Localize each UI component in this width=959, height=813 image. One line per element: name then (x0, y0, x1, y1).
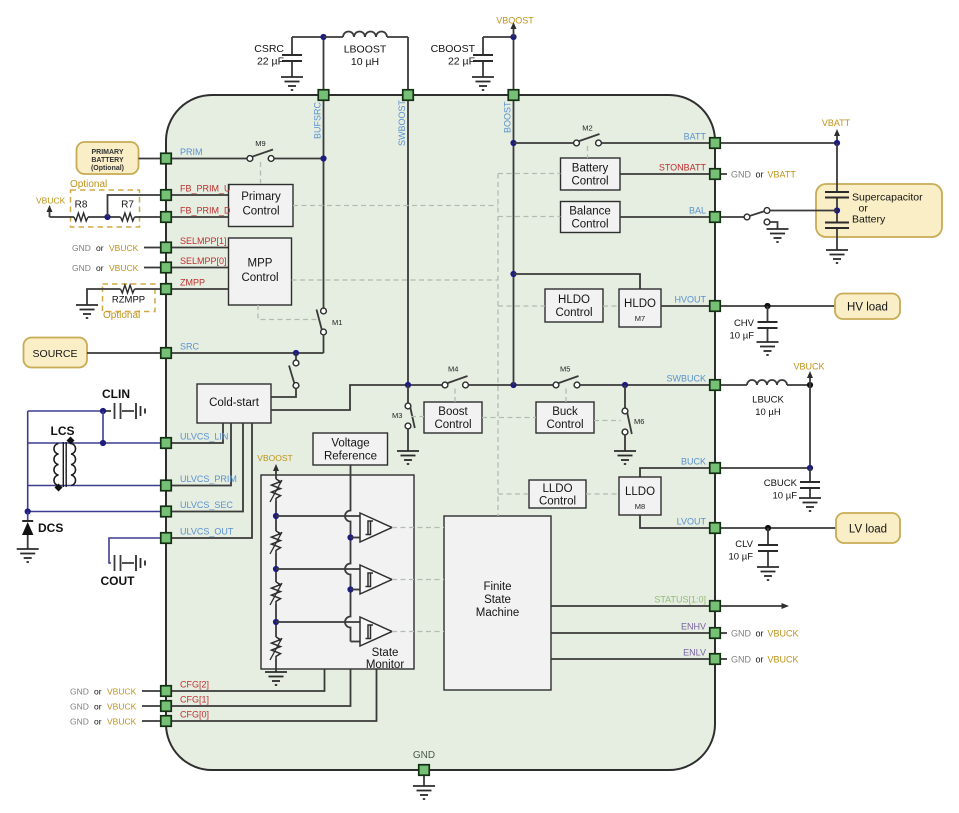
node boost rail BOOST (510, 382, 516, 388)
transistor LLDO M8 (619, 477, 661, 515)
wire BUFSRC vertical (323, 101, 325, 308)
svg-text:VBOOST: VBOOST (496, 16, 534, 26)
wire ladder seg4 (275, 659, 277, 672)
pin SELMPP0 (161, 256, 227, 273)
LV load box (836, 513, 900, 543)
node boost rail SWBOOST (405, 382, 411, 388)
wire ULVCS_LIN inside (172, 423, 223, 443)
wire ULVCS_SEC row (28, 511, 160, 513)
pin CFG2 (161, 680, 209, 697)
pin SWBUCK (666, 374, 720, 391)
wire switch throw to ground (770, 222, 777, 229)
pin ULVCS_SEC (161, 500, 234, 517)
wire CLIN node down (102, 411, 104, 443)
svg-text:GND: GND (731, 655, 752, 665)
label GND or VBATT at STONBATT (721, 170, 796, 180)
node tap1 (273, 513, 279, 519)
svg-text:FB_PRIM_D: FB_PRIM_D (180, 206, 231, 216)
dashed gate M5 (565, 389, 567, 403)
svg-text:RZMPP: RZMPP (112, 295, 145, 306)
capacitor CBUCK (764, 468, 820, 502)
svg-text:SWBUCK: SWBUCK (666, 374, 706, 384)
wire ULVCS_PRIM row (28, 485, 160, 487)
wire ladder seg2 (275, 553, 277, 582)
svg-text:VBUCK: VBUCK (768, 655, 799, 665)
ground at CHV (757, 342, 779, 355)
wire BATT to supercap (721, 142, 837, 144)
svg-text:STATUS[1:0]: STATUS[1:0] (654, 595, 706, 605)
capacitor CLV (729, 528, 778, 567)
block Voltage Reference (313, 433, 388, 465)
wire left vertical (27, 411, 29, 512)
svg-text:R7: R7 (121, 200, 134, 211)
svg-text:HV load: HV load (847, 302, 888, 314)
pin PRIM (161, 147, 203, 164)
svg-text:Primary: Primary (241, 191, 281, 203)
svg-text:SELMPP[1]: SELMPP[1] (180, 236, 227, 246)
wire ULVCS_OUT inside (172, 423, 252, 538)
resistor RZMPP (87, 284, 160, 312)
label GND or VBUCK at SELMPP1 (72, 243, 160, 253)
node at CHV (764, 303, 770, 309)
dashed MPP to M1 (258, 305, 318, 320)
svg-text:VBUCK: VBUCK (109, 243, 139, 253)
label GND or VBUCK at ENLV (721, 655, 799, 665)
wire FB_PRIM_D inside (172, 216, 229, 218)
svg-text:10 µF: 10 µF (729, 552, 754, 563)
wire buck rail to SWBUCK (580, 384, 709, 386)
pin BAL (689, 206, 720, 223)
pin SRC (161, 342, 200, 359)
svg-text:COUT: COUT (101, 574, 136, 588)
wire ladder seg1 (275, 501, 277, 531)
node BOOST-HLDO (510, 271, 516, 277)
net VBOOST ladder (257, 453, 292, 479)
svg-text:SELMPP[0]: SELMPP[0] (180, 256, 227, 266)
svg-text:or: or (94, 717, 102, 727)
wire FSM to STATUS (551, 605, 709, 607)
svg-text:10 µH: 10 µH (755, 407, 781, 418)
block Buck Control (536, 402, 594, 433)
wire ref to comp3 (351, 641, 361, 643)
wire Battery Control to STONBATT (620, 173, 709, 175)
dashed HLDO Control to HLDO (603, 305, 619, 307)
pin ULVCS_PRIM (161, 474, 237, 491)
block State Monitor (261, 475, 414, 671)
pin STONBATT (659, 163, 720, 180)
resistor ladder R4 (270, 637, 282, 660)
svg-text:BUCK: BUCK (681, 457, 706, 467)
comparator 2 (360, 565, 392, 594)
svg-text:ZMPP: ZMPP (180, 278, 205, 288)
node VBUCK (807, 382, 813, 388)
node supercap midpoint (834, 207, 840, 213)
switch M5 (553, 365, 580, 388)
pin GND (413, 750, 435, 775)
dashed comparator1 out (392, 527, 444, 529)
svg-text:Control: Control (539, 496, 576, 508)
svg-text:GND: GND (72, 263, 91, 273)
svg-text:Battery: Battery (572, 163, 609, 175)
svg-text:LLDO: LLDO (625, 486, 655, 498)
svg-text:GND: GND (731, 629, 752, 639)
svg-text:HLDO: HLDO (624, 298, 656, 310)
svg-text:GND: GND (72, 243, 91, 253)
pin SWBOOST (397, 90, 413, 146)
ground at CSRC (281, 77, 303, 90)
ground at CBUCK (799, 498, 821, 511)
node at ULVCS_LIN (100, 440, 106, 446)
svg-text:State: State (372, 647, 399, 659)
ground at RZMPP (76, 305, 98, 318)
ground at M3 (397, 451, 419, 464)
svg-text:Finite: Finite (483, 581, 511, 593)
wire ladder seg3 (275, 604, 277, 637)
dashed Primary Control to bus (293, 205, 498, 207)
wire BAL to switch (721, 216, 744, 218)
svg-text:10 µF: 10 µF (773, 491, 798, 502)
svg-text:HVOUT: HVOUT (675, 295, 707, 305)
pin ULVCS_OUT (161, 527, 234, 544)
wire Cold-start to boost rail (271, 385, 442, 410)
wire SWBOOST vertical (407, 101, 409, 385)
svg-text:or: or (756, 170, 764, 180)
ground at CLIN (136, 403, 145, 419)
svg-text:VBATT: VBATT (822, 118, 851, 128)
pin BATT (684, 132, 721, 149)
net VBOOST (496, 16, 534, 38)
label GND or VBUCK at ENHV (721, 629, 799, 639)
SOURCE box (24, 338, 88, 368)
capacitor CBOOST (431, 37, 493, 77)
wire FSM to ENHV (551, 632, 709, 634)
capacitor CHV (730, 306, 778, 342)
pin FB_PRIM_U (161, 184, 231, 201)
dashed control bus vertical (497, 174, 499, 517)
svg-text:ENLV: ENLV (683, 648, 706, 658)
label GND or VBUCK at CFG2 (70, 687, 160, 697)
node ref comp2 (347, 586, 353, 592)
wire HVOUT to HV load (721, 305, 835, 307)
resistor R7 (88, 200, 160, 222)
ground at GND pin (413, 786, 435, 799)
dashed Buck to M6 (594, 420, 621, 422)
svg-text:Control: Control (555, 307, 592, 319)
resistor ladder R1 (270, 479, 282, 502)
wire STATUS arrow out (721, 603, 789, 609)
svg-text:ULVCS_SEC: ULVCS_SEC (180, 500, 233, 510)
pin HVOUT (675, 295, 721, 312)
ground at BAL switch (767, 229, 789, 242)
capacitor CLIN (103, 403, 134, 419)
svg-text:ULVCS_LIN: ULVCS_LIN (180, 432, 228, 442)
svg-text:Reference: Reference (324, 451, 377, 463)
ground at COUT (136, 555, 145, 571)
svg-text:CFG[2]: CFG[2] (180, 680, 209, 690)
svg-text:BATTERY: BATTERY (91, 157, 124, 164)
wire tap1 to comparator (276, 515, 360, 517)
svg-text:CSRC: CSRC (254, 43, 284, 55)
svg-text:CLIN: CLIN (102, 387, 130, 401)
svg-text:Battery: Battery (852, 214, 886, 226)
svg-text:Monitor: Monitor (366, 659, 405, 671)
pin ENLV (683, 648, 720, 665)
svg-text:CBOOST: CBOOST (431, 43, 476, 55)
supercapacitor cells (825, 143, 849, 250)
svg-text:22 µF: 22 µF (448, 56, 475, 68)
pin LVOUT (677, 517, 721, 534)
wire SELMPP0 inside (172, 267, 229, 269)
net VBUCK left (36, 196, 66, 218)
svg-text:Cold-start: Cold-start (209, 397, 260, 409)
block Boost Control (424, 402, 482, 433)
wire SELMPP1 inside (172, 247, 229, 249)
svg-text:SWBOOST: SWBOOST (397, 99, 407, 146)
svg-text:LBOOST: LBOOST (344, 44, 387, 56)
svg-text:Buck: Buck (552, 406, 578, 418)
svg-text:Boost: Boost (438, 406, 468, 418)
svg-text:LLDO: LLDO (542, 483, 572, 495)
wire ULVCS loop top (28, 410, 103, 412)
label GND or VBUCK at CFG0 (70, 717, 160, 727)
svg-text:Balance: Balance (569, 206, 611, 218)
svg-text:Machine: Machine (476, 607, 519, 619)
svg-text:VBOOST: VBOOST (257, 453, 292, 463)
wire CFG0 inside (172, 669, 377, 721)
switch M4 (442, 365, 468, 388)
node tap2 (273, 566, 279, 572)
svg-text:10 µH: 10 µH (351, 56, 379, 68)
node between R8 R7 (104, 214, 110, 220)
node VBOOST (510, 34, 516, 40)
svg-text:GND: GND (731, 170, 752, 180)
svg-text:CFG[1]: CFG[1] (180, 695, 209, 705)
wire ref to comp1 (351, 537, 361, 539)
ground at CBOOST (472, 77, 494, 90)
svg-text:ENHV: ENHV (681, 622, 706, 632)
svg-text:or: or (756, 655, 764, 665)
wire node to FB_PRIM_U (108, 195, 161, 217)
node at CLIN (100, 408, 106, 414)
switch cold-start (271, 353, 299, 397)
ground at DCS (17, 549, 39, 562)
capacitor CSRC (254, 37, 302, 77)
svg-text:LV load: LV load (849, 524, 887, 536)
wire Balance Control to BAL (620, 216, 709, 218)
dashed LLDO Control to LLDO (586, 493, 619, 495)
svg-text:Optional: Optional (103, 310, 140, 321)
pin ULVCS_LIN (161, 432, 229, 449)
label GND or VBUCK at CFG1 (70, 702, 160, 712)
switch M3 (392, 385, 415, 451)
pin BUCK (681, 457, 720, 474)
comparator 1 (360, 513, 392, 542)
ground at ladder (265, 672, 287, 685)
switch M6 (622, 385, 644, 451)
wire BOOST vertical (513, 101, 515, 385)
svg-text:SRC: SRC (180, 342, 200, 352)
dashed gate M2 (587, 146, 589, 158)
diode DCS (22, 512, 63, 550)
svg-text:GND: GND (70, 717, 89, 727)
svg-text:Control: Control (242, 206, 279, 218)
switch at BAL (744, 208, 770, 225)
block Balance Control (561, 202, 621, 233)
label GND or VBUCK at SELMPP0 (72, 263, 160, 273)
optional box R8 R7 (71, 190, 140, 227)
block Primary Control (229, 185, 294, 227)
dashed bus to Balance Control (498, 216, 561, 218)
dashed bus to LLDO Control (498, 493, 529, 495)
dashed MPP Control to bus (292, 279, 499, 281)
net VBATT (822, 118, 851, 143)
block Cold-start (197, 384, 271, 423)
wire VBUCK node down to BUCK (809, 385, 811, 468)
inductor LBUCK (721, 380, 810, 418)
node ref comp1 (347, 534, 353, 540)
dashed comparator3 out (392, 631, 444, 633)
svg-text:(Optional): (Optional) (91, 165, 124, 172)
svg-text:HLDO: HLDO (558, 294, 590, 306)
svg-text:DCS: DCS (38, 521, 63, 535)
svg-text:BATT: BATT (684, 132, 707, 142)
wire ULVCS_PRIM inside (172, 423, 231, 486)
svg-text:R8: R8 (75, 200, 88, 211)
dashed bus to HLDO Control (498, 305, 545, 307)
wire boost rail mid (469, 384, 553, 386)
svg-text:GND: GND (70, 687, 89, 697)
pin BUFSRC (313, 90, 329, 139)
wire PRIMARY BATTERY to PRIM (139, 158, 161, 160)
svg-text:or: or (96, 243, 104, 253)
svg-text:CBUCK: CBUCK (764, 478, 798, 489)
svg-text:Control: Control (434, 419, 471, 431)
IC body (166, 95, 715, 770)
svg-text:VBUCK: VBUCK (109, 263, 139, 273)
block Finite State Machine (444, 516, 551, 690)
switch M1 (317, 308, 343, 335)
svg-text:CHV: CHV (734, 318, 755, 329)
svg-text:LCS: LCS (51, 424, 75, 438)
node at DCS (25, 508, 31, 514)
svg-text:VBUCK: VBUCK (107, 687, 137, 697)
node PRIM-BUFSRC (320, 155, 326, 161)
wire LVOUT to LV load (721, 527, 836, 529)
wire LLDO to LVOUT (640, 515, 709, 528)
svg-text:ULVCS_PRIM: ULVCS_PRIM (180, 474, 237, 484)
svg-text:ULVCS_OUT: ULVCS_OUT (180, 527, 234, 537)
svg-text:PRIMARY: PRIMARY (91, 149, 123, 156)
svg-text:LVOUT: LVOUT (677, 517, 707, 527)
transformer LCS (54, 437, 76, 492)
wire FB_PRIM_U inside (172, 194, 229, 196)
svg-text:VBUCK: VBUCK (793, 362, 824, 372)
svg-text:M4: M4 (448, 365, 458, 374)
dashed bus to Battery Control (498, 173, 561, 175)
svg-text:SOURCE: SOURCE (33, 348, 78, 360)
dashed gate M9 (260, 162, 262, 185)
svg-text:Control: Control (241, 272, 278, 284)
pin CFG1 (161, 695, 209, 712)
svg-text:or: or (96, 263, 104, 273)
block HLDO Control (545, 289, 603, 322)
pin SELMPP1 (161, 236, 227, 253)
svg-text:BOOST: BOOST (503, 101, 513, 133)
svg-text:M1: M1 (332, 318, 342, 327)
resistor ladder R2 (270, 531, 282, 554)
svg-text:M2: M2 (582, 124, 592, 133)
svg-text:M3: M3 (392, 411, 402, 420)
wire BATT row inside (514, 142, 710, 144)
pin ZMPP (161, 278, 205, 295)
svg-text:CFG[0]: CFG[0] (180, 710, 209, 720)
inductor LBOOST (324, 32, 409, 90)
svg-text:M5: M5 (560, 365, 570, 374)
svg-text:GND: GND (70, 702, 89, 712)
svg-text:MPP: MPP (248, 258, 273, 270)
supercapacitor box (816, 184, 942, 237)
wire SRC row (172, 352, 324, 354)
svg-text:LBUCK: LBUCK (752, 395, 784, 406)
wire FSM to ENLV (551, 658, 709, 660)
wire PRIM row (172, 158, 324, 160)
node at CBUCK (807, 465, 813, 471)
svg-text:VBUCK: VBUCK (107, 717, 137, 727)
ground below supercap (826, 250, 848, 263)
wire reference vertical (345, 465, 350, 642)
svg-text:Control: Control (546, 419, 583, 431)
node at BUFSRC top (320, 34, 326, 40)
svg-text:PRIM: PRIM (180, 147, 203, 157)
svg-text:VBUCK: VBUCK (107, 702, 137, 712)
block Battery Control (561, 158, 621, 190)
wire ULVCS_SEC inside (172, 423, 243, 512)
wire ZMPP inside (172, 288, 229, 290)
svg-text:or: or (756, 629, 764, 639)
node at CLV (765, 525, 771, 531)
svg-text:FB_PRIM_U: FB_PRIM_U (180, 184, 231, 194)
node at VBATT (834, 140, 840, 146)
svg-text:BUFSRC: BUFSRC (313, 101, 323, 139)
block MPP Control (229, 238, 292, 305)
resistor R8 (50, 200, 89, 222)
wire ref to comp2 (351, 589, 361, 591)
dashed Boost to Buck (482, 417, 536, 419)
dashed gate M4 (454, 389, 456, 403)
wire tap2 to comparator (276, 568, 360, 570)
capacitor COUT (115, 555, 135, 571)
dashed M3 to Boost Control (411, 416, 424, 418)
node BOOST-BATT (510, 140, 516, 146)
pin ENHV (681, 622, 720, 639)
svg-text:or: or (94, 687, 102, 697)
wire CBOOST to BOOST node (483, 37, 514, 89)
svg-text:BAL: BAL (689, 206, 706, 216)
svg-text:22 µF: 22 µF (257, 56, 284, 68)
switch M2 (574, 124, 602, 146)
block LLDO Control (529, 480, 586, 508)
pin CFG0 (161, 710, 209, 727)
wire BUCK to LLDO (640, 468, 709, 477)
wire CFG2 inside (172, 669, 325, 691)
wire tap3 to comparator (276, 621, 360, 623)
HV load box (835, 294, 900, 320)
svg-text:M9: M9 (255, 139, 265, 148)
wire ULVCS_OUT to COUT (109, 538, 160, 563)
PRIMARY BATTERY box (77, 142, 139, 174)
svg-text:Control: Control (571, 176, 608, 188)
wire BOOST to HLDO (514, 274, 641, 289)
